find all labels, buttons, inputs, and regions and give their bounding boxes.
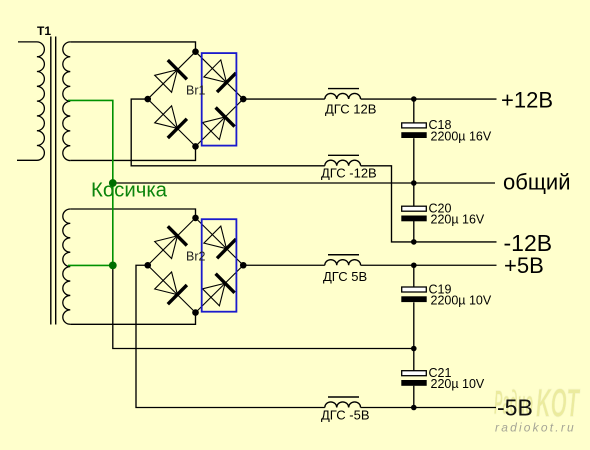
wire DGS 12V choke to +12V label [361, 98, 497, 100]
inductor L4 DGS -5V winding [325, 402, 361, 408]
green braid wire (Kosichka): sec1 tap to sec2 tap [68, 100, 113, 265]
wire Br2 plus node to DGS 5V choke (+5V rail) [243, 264, 325, 266]
svg-text:ДГС 5В: ДГС 5В [323, 269, 367, 284]
junction node common rail [411, 180, 417, 186]
Br1 node left [144, 96, 151, 103]
Br1 diode lower-left [155, 106, 187, 138]
Br2 diode lower-left [155, 272, 187, 304]
wire capacitor bus C18 top [413, 99, 415, 123]
Br1 diode upper-right [204, 60, 236, 92]
capacitor C19 negative plate [401, 296, 426, 302]
Br2 node right [240, 262, 247, 269]
Br2 node left [144, 262, 151, 269]
junction node -12V rail [411, 239, 417, 245]
capacitor C18 negative plate [401, 132, 426, 138]
wire C20 bottom to -12V rail [413, 220, 415, 242]
svg-text:radiokot.ru: radiokot.ru [495, 421, 576, 435]
wire DGS 5V choke to +5V label [361, 264, 497, 266]
inductor L4 DGS -5V core bar [328, 396, 359, 398]
svg-text:-5В: -5В [497, 395, 533, 421]
svg-text:-12В: -12В [504, 230, 553, 256]
wire Br1 AC bottom to secondary1 bottom [70, 146, 195, 160]
Br2 node top [192, 215, 199, 222]
watermark Radio KOT [494, 382, 581, 426]
svg-text:общий: общий [503, 170, 571, 195]
junction node +12V rail [411, 96, 417, 102]
wire C19 bottom to 5V common junction [413, 302, 415, 348]
wire secondary1 top to Br1 AC top [70, 42, 195, 52]
svg-text:+12В: +12В [501, 87, 553, 112]
transformer secondary winding 2 (bottom) [63, 209, 71, 324]
Br1 blue package outline [202, 53, 237, 146]
Br1 node bottom [192, 143, 199, 150]
transformer T1 primary winding [17, 42, 44, 160]
Br2 node bottom [192, 309, 199, 316]
Br1 diode lower-right [203, 108, 235, 140]
inductor L3 DGS 5V core bar [328, 254, 359, 256]
junction node 5V common rail [411, 346, 417, 352]
wire Br1 minus node to DGS -12V choke [131, 99, 325, 166]
inductor L2 DGS -12V core bar [328, 154, 359, 156]
Br1 diode upper-left [155, 60, 187, 92]
bridge rectifier Br1 diamond [148, 52, 244, 147]
capacitor C20 negative plate [401, 216, 426, 222]
Br1 node right [240, 96, 247, 103]
wire C18 bottom to common [413, 138, 415, 183]
wire Br2 AC bottom to secondary2 bottom [70, 313, 195, 325]
svg-text:Br2: Br2 [186, 250, 206, 264]
Br2 diode upper-left [155, 226, 187, 258]
capacitor C18 positive plate [402, 123, 427, 128]
inductor L3 DGS 5V winding [325, 260, 361, 266]
wire common (obschiy) rail [113, 182, 495, 184]
svg-text:Косичка: Косичка [91, 180, 168, 202]
svg-text:220µ 16V: 220µ 16V [431, 213, 485, 227]
wire secondary2 top to Br2 AC top [70, 209, 195, 218]
inductor L1 DGS 12V core bar [328, 88, 359, 90]
junction node +5V rail [411, 262, 417, 268]
green junction node at common rail [109, 179, 117, 187]
capacitor C21 negative plate [401, 380, 426, 386]
capacitor C20 positive plate [402, 206, 427, 211]
wire 5V common junction to C21 top [413, 349, 415, 371]
svg-text:ДГС -12В: ДГС -12В [321, 166, 377, 181]
Br1 node top [192, 48, 199, 55]
wire DGS -5V choke to -5V label [361, 407, 496, 409]
capacitor C21 positive plate [402, 371, 427, 376]
svg-text:KOT: KOT [536, 382, 581, 426]
Br2 diode lower-right [203, 274, 235, 306]
Br2 diode upper-right [204, 226, 236, 258]
svg-text:2200µ 16V: 2200µ 16V [431, 129, 492, 143]
svg-text:2200µ 10V: 2200µ 10V [431, 294, 492, 308]
wire C19 top [413, 265, 415, 287]
transformer core line 2 [55, 37, 57, 325]
bridge rectifier Br2 diamond [148, 218, 244, 313]
svg-text:220µ 10V: 220µ 10V [431, 377, 485, 391]
wire DGS -12V choke to -12V rail [361, 166, 497, 242]
inductor L2 DGS -12V winding [325, 160, 361, 166]
junction node -5V rail [411, 405, 417, 411]
wire common to C20 top [413, 183, 415, 206]
wire 5V common from tap junction down and right [113, 265, 414, 348]
transformer core line 1 [50, 37, 52, 325]
wire C21 bottom to -5V rail [413, 386, 415, 408]
svg-text:Br1: Br1 [186, 84, 206, 98]
transformer secondary winding 1 (top) [63, 42, 71, 161]
green junction node at sec2 tap [109, 262, 117, 270]
capacitor C19 positive plate [402, 287, 427, 292]
svg-text:+5В: +5В [504, 253, 544, 278]
Br2 blue package outline [202, 219, 237, 312]
wire Br1 plus node to DGS 12V choke (+12V rail) [243, 98, 325, 100]
wire Br2 minus node down to DGS -5V choke [136, 265, 325, 407]
svg-text:T1: T1 [37, 24, 51, 38]
svg-text:ДГС -5В: ДГС -5В [321, 408, 370, 423]
inductor L1 DGS 12V winding [325, 93, 361, 99]
svg-text:ДГС 12В: ДГС 12В [325, 102, 376, 117]
